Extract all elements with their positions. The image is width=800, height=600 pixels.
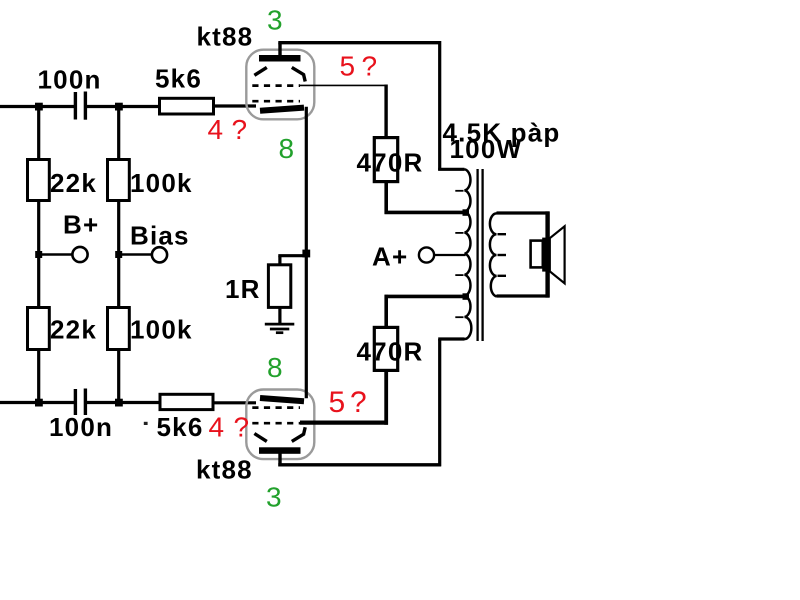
svg-text:8: 8	[267, 352, 283, 383]
svg-text:4: 4	[209, 412, 225, 443]
svg-text:470R: 470R	[357, 148, 424, 178]
svg-text:5: 5	[329, 386, 346, 419]
svg-text:5k6: 5k6	[155, 64, 202, 94]
svg-text:?: ?	[232, 114, 248, 145]
svg-text:470R: 470R	[357, 337, 424, 367]
svg-text:100W: 100W	[450, 134, 523, 164]
svg-text:100n: 100n	[38, 65, 102, 95]
svg-text:Bias: Bias	[130, 221, 190, 251]
svg-text:?: ?	[362, 51, 378, 82]
svg-text:kt88: kt88	[196, 455, 253, 485]
svg-text:100k: 100k	[130, 168, 193, 198]
svg-text:1R: 1R	[225, 274, 261, 304]
svg-text:8: 8	[279, 133, 295, 164]
svg-text:100n: 100n	[49, 412, 113, 442]
svg-text:100k: 100k	[130, 315, 193, 345]
svg-text:4: 4	[208, 114, 224, 145]
svg-text:5k6: 5k6	[157, 412, 204, 442]
svg-text:3: 3	[267, 5, 283, 36]
svg-text:?: ?	[350, 386, 367, 419]
svg-text:3: 3	[266, 482, 282, 513]
svg-text:22k: 22k	[50, 315, 97, 345]
svg-text:22k: 22k	[50, 168, 97, 198]
svg-text:A+: A+	[372, 242, 408, 272]
svg-text:B+: B+	[63, 210, 99, 240]
svg-text:5: 5	[340, 51, 356, 82]
svg-text:?: ?	[234, 412, 250, 443]
svg-text:kt88: kt88	[197, 22, 254, 52]
